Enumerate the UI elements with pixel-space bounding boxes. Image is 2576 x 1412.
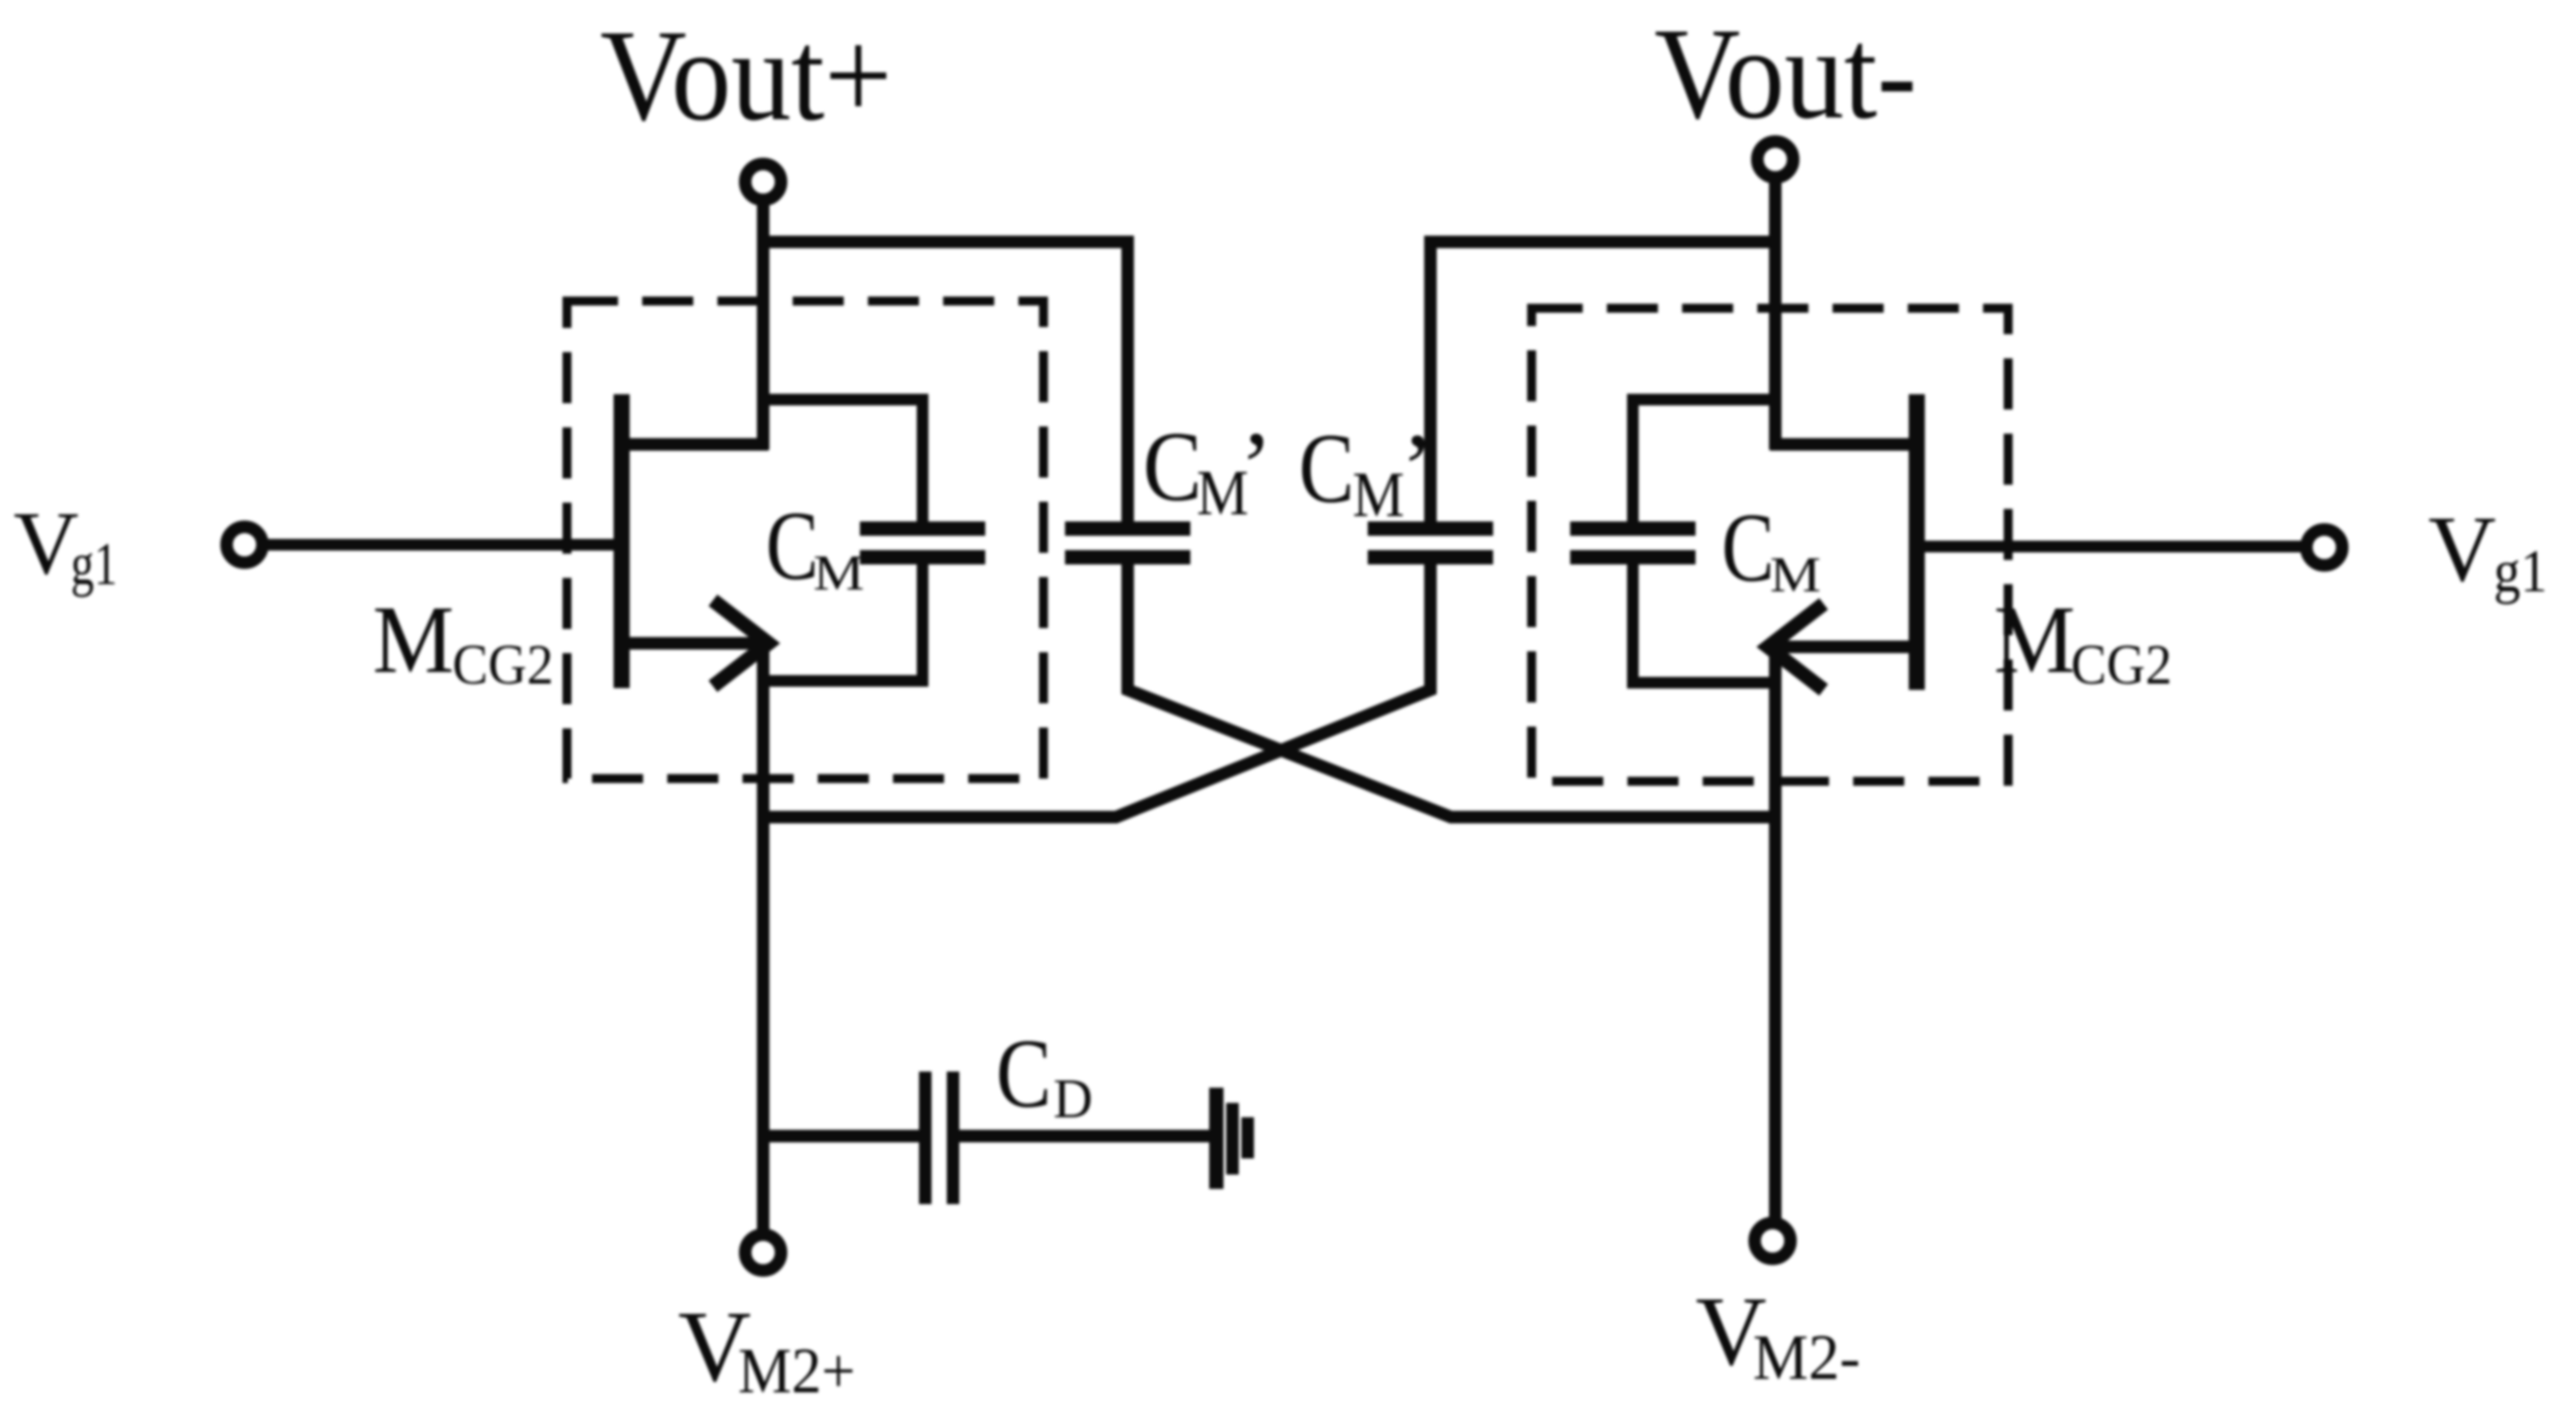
svg-text:g1: g1 [71,529,117,598]
terminal Vout+ [745,164,781,200]
capacitor CM' right top plate [1368,521,1493,536]
svg-text:Vout+: Vout+ [600,3,892,148]
terminal Vg1 right [2306,529,2342,565]
svg-text:’: ’ [1240,412,1273,522]
wire left source vertical [757,643,769,1235]
svg-text:M: M [1352,459,1404,530]
wire left CM bottom [769,564,923,681]
wire CD to ground [959,1130,1211,1142]
svg-text:C: C [766,491,819,600]
wire left CM' bottom diagonal to right node [1128,564,1775,817]
terminal Vg1 left [227,527,262,563]
capacitor CM left bottom plate [860,550,985,564]
transistor M_CG2 left source lead [622,637,763,650]
ground [1209,1088,1224,1189]
transistor M_CG2 left drain lead [622,438,769,451]
transistor M_CG2 right source arrow [1768,604,1824,690]
terminal V_M2+ [745,1235,781,1270]
svg-text:C: C [1722,493,1774,602]
transistor M_CG2 right source lead [1775,641,1917,653]
svg-text:CG2: CG2 [2071,633,2172,696]
wire right CM top tee [1633,400,1775,522]
wire right source vertical [1769,647,1782,1223]
capacitor CM left top plate [860,521,985,536]
terminal Vout- [1757,142,1793,177]
capacitor CM right top plate [1570,521,1696,536]
svg-text:V: V [2428,496,2496,601]
capacitor CM' left bottom plate [1065,550,1190,564]
wire Vout+ vertical [757,201,769,450]
svg-text:V: V [13,493,79,593]
wire gate left [262,539,616,551]
svg-text:’: ’ [1401,414,1434,524]
svg-text:C: C [1299,414,1354,524]
wire left node horizontal [763,564,1430,817]
svg-text:M: M [813,546,864,601]
wire gate right [1923,541,2306,553]
svg-text:C: C [1143,412,1202,522]
dashed box left [567,301,1043,779]
svg-text:Vout-: Vout- [1654,1,1917,146]
capacitor CD right plate [947,1072,959,1204]
svg-text:M2+: M2+ [738,1335,855,1407]
svg-text:M2-: M2- [1753,1322,1860,1393]
wire Vout- vertical [1769,178,1782,450]
capacitor CM' left top plate [1065,521,1190,536]
wire Vout- to right CM' top [1430,242,1775,522]
svg-text:C: C [996,1019,1052,1128]
dashed box right [1532,308,2008,781]
transistor M_CG2 right drain lead [1770,438,1917,451]
wire Vout+ to left CM' top [763,242,1128,522]
capacitor CM' right bottom plate [1368,550,1493,564]
svg-text:D: D [1053,1069,1093,1130]
svg-text:M: M [373,587,454,693]
wire left CM top tee [763,400,923,522]
capacitor CM right bottom plate [1570,550,1696,564]
transistor M_CG2 left source arrow [713,600,769,686]
svg-text:CG2: CG2 [452,633,554,696]
terminal V_M2- [1755,1223,1790,1259]
capacitor CD left plate [919,1072,932,1204]
wire right CM bottom [1633,564,1775,683]
svg-text:M: M [1770,547,1821,603]
transistor M_CG2 right gate bar [1909,394,1925,690]
transistor M_CG2 left gate bar [614,394,630,688]
svg-text:g1: g1 [2494,537,2547,605]
wire source to CD [763,1130,919,1142]
